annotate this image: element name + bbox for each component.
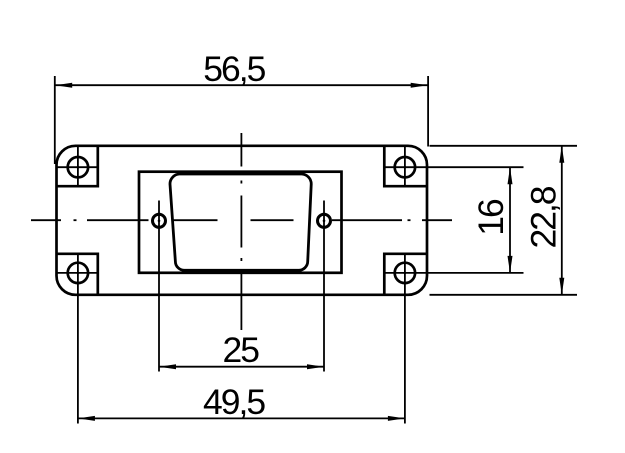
dimension 56,5 arrow left [55,83,72,88]
dimension 56,5 extension line left [54,76,56,164]
jack screw hole left [153,201,166,372]
body outline (connector housing, rounded rect) [57,146,428,295]
svg-text:22,8: 22,8 [524,186,564,248]
jack screw hole right [318,201,331,372]
svg-text:56,5: 56,5 [203,49,265,89]
dimension 49,5 arrow left [78,416,95,421]
mounting hole bottom-left [57,254,98,295]
dimension 25 line [159,366,324,368]
dimension 56,5 extension line right [427,76,429,147]
mounting hole top-right [384,146,427,186]
dimension 49,5 line [78,417,405,419]
dimension 49,5 extension line left [77,295,79,424]
dimension 56,5 line [55,84,428,86]
dimension 16 line [509,167,511,273]
mounting hole bottom-right [384,254,427,295]
dimension 56,5 arrow right [411,83,428,88]
corner pad top-right (square) [384,146,427,186]
dimension 25 arrow right [307,364,324,369]
dimension 22,8 extension line top [430,145,578,147]
dimension 16 extension line top [427,166,524,168]
dimension 49,5 extension line right [404,295,406,424]
dimension 22,8 arrow top [559,146,564,163]
dimension 22,8 extension line bottom [430,294,578,296]
dimension 16 arrow bottom [508,256,513,273]
vertical centerline (dash-dot) [240,133,242,330]
D-sub shell trapezoid [170,174,311,270]
svg-text:49,5: 49,5 [203,382,265,422]
svg-text:16: 16 [471,199,511,236]
dimension 16 arrow top [508,167,513,184]
dimension 25 arrow left [159,364,176,369]
corner pad top-left (square) [57,146,98,186]
mounting hole top-left [57,146,98,186]
dimension 49,5 arrow right [388,416,405,421]
corner pad bottom-left (square) [57,254,98,295]
dimension 16 extension line bottom [427,272,524,274]
horizontal centerline (dash-dot) [31,219,452,221]
dimension 22,8 line [561,146,563,295]
corner pad bottom-right (square) [384,254,427,295]
dimension 22,8 arrow bottom [559,278,564,295]
insert flange rectangle [139,172,342,273]
svg-text:25: 25 [223,330,260,370]
